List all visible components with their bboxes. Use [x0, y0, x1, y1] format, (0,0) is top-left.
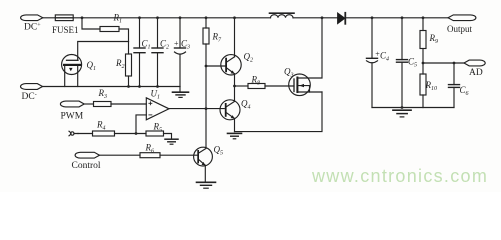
terminal DC- [21, 84, 43, 90]
wire Q2 collector [234, 18, 236, 57]
terminal Output [448, 15, 476, 21]
terminal DC+ [21, 15, 43, 21]
wire R8 to Q3 gate [265, 85, 294, 87]
transistor Q4 [220, 100, 240, 120]
node C5-top [401, 16, 404, 19]
wire R1 to gate node [119, 29, 129, 42]
node R8 [233, 85, 236, 88]
terminal +5V mark [69, 131, 78, 136]
resistor R1 [100, 27, 119, 32]
node R9-R10 [422, 62, 425, 65]
resistor R3 [94, 102, 112, 107]
node C6-top [453, 62, 456, 65]
capacitor C2 [152, 18, 163, 87]
capacitor C1 [134, 18, 145, 87]
terminal AD [464, 60, 485, 66]
svg-text:FUSE1: FUSE1 [52, 25, 79, 35]
terminal PWM [60, 101, 84, 107]
wire R5 to ground [164, 134, 172, 139]
node C5-bottom [401, 106, 404, 109]
resistor R6 [140, 153, 160, 158]
wire Q3 source [298, 91, 322, 93]
terminal Control [75, 152, 99, 158]
wire PWM to R3 [84, 103, 93, 105]
svg-text:DC-: DC- [22, 92, 37, 102]
wire Q3 drain [298, 18, 322, 78]
transistor Q3 [289, 74, 311, 96]
wire R6 to Q5 base [160, 154, 197, 156]
wire R1 branch [82, 18, 100, 29]
wire AD line [423, 62, 464, 64]
node inverting input [135, 132, 138, 135]
node Q2 base [205, 65, 208, 68]
capacitor C6 [449, 63, 460, 108]
wire Q2 emitter to node [234, 74, 236, 86]
wire DC- rail [43, 86, 181, 88]
node driver-rail [205, 16, 208, 19]
resistor R8 [248, 84, 265, 89]
capacitor C5 [397, 18, 408, 108]
node C2-top [156, 16, 159, 19]
svg-text:AD: AD [469, 68, 483, 78]
wire node to R8 [235, 85, 249, 87]
node C4-top [371, 16, 374, 19]
wire top rail [43, 17, 448, 19]
wire U1 output [169, 108, 224, 110]
transistor Q1 [62, 55, 82, 87]
resistor R4 [93, 131, 115, 136]
wire R3 to U1+ [111, 103, 146, 105]
wire Q4 emitter [234, 119, 236, 132]
resistor R7 [203, 28, 209, 44]
node C2-rail [156, 85, 159, 88]
resistor R9 [420, 18, 426, 63]
wire Q4 emitter to Q3 source [235, 92, 323, 132]
ground output [393, 110, 411, 117]
wire gate jog [78, 42, 129, 61]
node C1-top [138, 16, 141, 19]
wire Control to R6 [100, 154, 141, 156]
node Q4 base / U1 out [205, 107, 208, 110]
capacitor C4 [367, 18, 378, 108]
capacitor C3 [175, 18, 186, 87]
transistor Q5 [194, 147, 213, 166]
fuse FUSE1 [55, 15, 73, 21]
node C3-top [179, 16, 182, 19]
svg-text:Output: Output [447, 24, 473, 34]
resistor R2 [126, 42, 132, 87]
inductor L [270, 13, 295, 18]
resistor R5 [146, 131, 164, 136]
wire driver column [205, 18, 207, 148]
node Q3 drain-rail [321, 16, 324, 19]
svg-text:www.cntronics.com: www.cntronics.com [311, 166, 488, 186]
resistor R10 [420, 63, 426, 108]
wire R4 to node [115, 133, 147, 135]
ground Q5 [197, 182, 216, 188]
node C1-rail [138, 85, 141, 88]
ground R5 [165, 139, 178, 144]
wire Q4 collector [234, 86, 236, 101]
node R2-rail [127, 85, 130, 88]
wire output bottom rail [372, 107, 454, 109]
ground main (DC- rail) [173, 87, 189, 98]
wire to R4 [78, 133, 93, 135]
node Q2 collector-rail [233, 16, 236, 19]
diode D1 [338, 13, 346, 24]
op-amp U1 [146, 98, 169, 120]
node R9-rail [422, 16, 425, 19]
svg-text:+: + [174, 39, 179, 48]
wire Q5 emitter [204, 165, 206, 182]
wire U1- input [136, 115, 146, 134]
svg-text:PWM: PWM [61, 112, 84, 122]
transistor Q2 [221, 55, 241, 75]
wire Q2 base [206, 65, 225, 67]
ground Q4 [228, 133, 242, 138]
svg-text:Control: Control [72, 161, 101, 171]
node rail-R1 junction [81, 16, 84, 19]
